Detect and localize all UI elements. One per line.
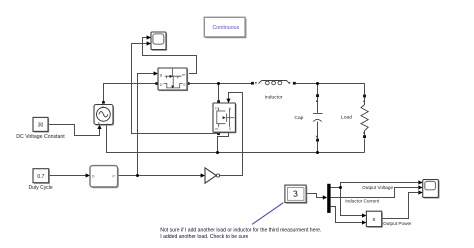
svg-text:Not sure if I add another load: Not sure if I add another load or induct… [160, 227, 321, 233]
svg-text:0.7: 0.7 [37, 174, 44, 180]
svg-text:Output Voltage: Output Voltage [362, 185, 393, 190]
svg-text:I added another load. Check to: I added another load. Check to be sure [160, 234, 248, 240]
svg-text:Inductor Current: Inductor Current [345, 198, 380, 203]
svg-text:x: x [373, 217, 376, 223]
svg-text:m: m [182, 73, 185, 77]
svg-text:DC Voltage Constant: DC Voltage Constant [16, 134, 65, 140]
svg-text:-: - [107, 121, 108, 125]
svg-text:Cap: Cap [294, 115, 303, 121]
svg-text:Duty Cycle: Duty Cycle [29, 185, 53, 191]
svg-text:Inductor: Inductor [265, 94, 283, 100]
svg-text:30: 30 [38, 123, 44, 129]
svg-text:P: P [112, 173, 115, 178]
svg-text:+: + [102, 105, 104, 109]
svg-text:g: g [160, 73, 162, 77]
svg-text:Load: Load [341, 115, 352, 121]
svg-text:Output Power: Output Power [383, 221, 412, 226]
svg-text:m: m [215, 127, 218, 131]
svg-text:Continuous: Continuous [212, 25, 239, 31]
svg-text:D: D [92, 173, 95, 178]
svg-text:D: D [160, 83, 163, 87]
